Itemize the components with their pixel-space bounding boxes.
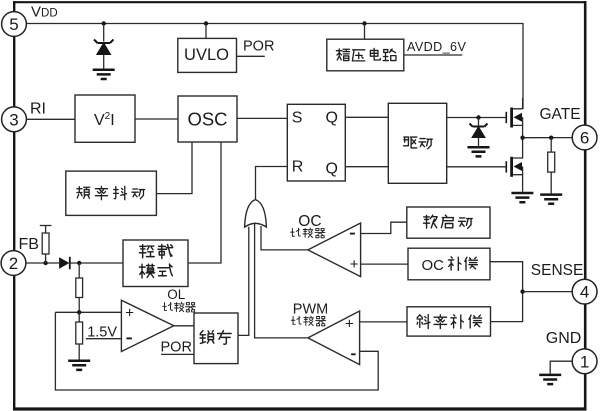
node zener D2 junction <box>476 115 480 119</box>
block slope compensation 斜率补偿 <box>407 307 491 336</box>
svg-text:GATE: GATE <box>540 106 581 123</box>
block latch 锁存 <box>194 313 238 364</box>
wire OL output to latch <box>174 325 194 327</box>
wire pin3 to V2I <box>26 118 75 120</box>
svg-text:Q: Q <box>326 110 338 127</box>
svg-text:SENSE: SENSE <box>531 262 584 279</box>
frame border top <box>13 1 587 3</box>
node FB divider junction <box>77 261 81 265</box>
wire V2I to OSC <box>135 118 178 120</box>
svg-text:RI: RI <box>30 101 46 118</box>
node FB pullup junction <box>43 261 47 265</box>
svg-text:5: 5 <box>9 15 18 34</box>
label OL comparator 比较器 <box>163 302 196 312</box>
block light-load 轻载模式 <box>123 240 188 287</box>
ground under Q2 <box>511 193 533 202</box>
svg-text:FB: FB <box>19 236 39 253</box>
block jitter 频率抖动 <box>66 171 157 215</box>
resistor R1 gate pulldown <box>548 152 555 172</box>
op-amp OC comparator <box>308 223 361 277</box>
wire VDD top rail <box>27 24 523 110</box>
wire driver top output to gate <box>447 117 506 119</box>
wire divider lower lead <box>78 312 80 322</box>
svg-text:GND: GND <box>546 330 582 347</box>
svg-text:+: + <box>350 256 359 273</box>
resistor R3 divider upper <box>76 278 83 298</box>
svg-text:3: 3 <box>9 110 18 129</box>
wire slope comp to sense node <box>491 292 523 322</box>
svg-text:OC: OC <box>422 257 445 274</box>
ground under R1 <box>540 195 562 204</box>
svg-text:2: 2 <box>9 254 18 273</box>
wire zener D1 top lead <box>103 24 105 42</box>
pin 4 circle <box>572 279 597 304</box>
diode D3 <box>59 257 70 269</box>
node divider to OL junction <box>77 310 81 314</box>
wire pin 1 to ground <box>550 361 572 374</box>
wire POR to latch <box>161 353 194 355</box>
wire OSC to jitter block <box>156 142 192 194</box>
wire latch output to OR gate <box>238 227 249 336</box>
svg-text:1.5V: 1.5V <box>87 325 117 341</box>
resistor R4 divider lower <box>76 322 83 344</box>
block driver 驱动 <box>388 103 446 183</box>
wire OSC to S input <box>237 117 287 119</box>
svg-text:OSC: OSC <box>187 109 227 130</box>
op-amp OL comparator <box>121 300 173 351</box>
svg-text:V2I: V2I <box>94 111 115 129</box>
node sense junction <box>520 289 524 293</box>
ground under D2 <box>468 147 490 156</box>
svg-text:AVDD_6V: AVDD_6V <box>407 40 466 54</box>
svg-text:S: S <box>292 110 303 127</box>
ground under D1 <box>93 70 115 79</box>
svg-text:+: + <box>125 305 134 322</box>
wire OC output to or-gate <box>261 226 308 250</box>
frame border right <box>584 1 587 409</box>
block V2I <box>75 95 135 142</box>
wire POR output <box>237 55 265 57</box>
svg-text:+: + <box>345 316 354 333</box>
wire or-gate output to R input <box>256 167 288 201</box>
resistor R2 FB pullup with top bar <box>40 226 52 264</box>
wire AVDD_6V output <box>404 54 463 56</box>
ground under R4 <box>68 361 90 370</box>
pin 2 circle <box>1 251 26 276</box>
frame border bottom <box>13 407 587 410</box>
block soft-start 软启动 <box>407 207 490 238</box>
wire R4 to ground <box>78 344 80 360</box>
svg-text:R: R <box>292 158 304 175</box>
node VDD-regulator junction <box>362 21 366 25</box>
wire 1.5V reference stub <box>86 338 122 340</box>
svg-text:Q: Q <box>326 160 338 177</box>
wire sense node to pin 4 <box>523 291 573 293</box>
wire OC comp to sense node <box>490 262 523 292</box>
node VDD-zener junction <box>102 21 106 25</box>
label PWM comparator 比较器 <box>291 316 325 326</box>
wire OL plus input <box>55 311 121 313</box>
label OC comparator 比较器 <box>291 228 325 238</box>
wire zener D1 bottom lead <box>103 55 105 69</box>
pin 1 circle <box>572 349 597 374</box>
block SR latch U1 <box>287 104 345 181</box>
ground at pin 1 <box>539 375 561 384</box>
transistor Q1 upper MOSFET <box>506 98 522 138</box>
wire zener D2 top lead <box>478 118 480 126</box>
wire Q to driver <box>345 116 388 118</box>
wire R1 to ground <box>550 172 552 193</box>
frame border left <box>13 1 15 409</box>
svg-text:PWM: PWM <box>293 301 328 317</box>
zener diode D1 <box>94 40 114 55</box>
pin 5 circle <box>2 12 27 37</box>
wire driver bottom output to gate <box>447 166 506 168</box>
svg-text:POR: POR <box>161 339 192 355</box>
wire R3 to node <box>78 298 80 313</box>
wire OSC to light-load output <box>188 142 221 263</box>
node gate output junction <box>520 136 524 140</box>
block regulator 稳压电路 <box>327 24 404 71</box>
wire soft-start to OC minus input <box>361 222 407 233</box>
wire Qb to driver <box>345 166 388 168</box>
wire PWM output to or-gate <box>255 223 308 338</box>
wire to gate resistor <box>550 138 552 152</box>
block UVLO <box>178 24 237 73</box>
node gate resistor junction <box>549 136 553 140</box>
wire divider upper lead <box>78 263 80 278</box>
wire slope comp to PWM plus input <box>360 321 407 323</box>
svg-text:UVLO: UVLO <box>184 46 229 64</box>
wire FB input <box>26 262 59 264</box>
block OC compensation OC补偿 <box>408 248 490 280</box>
zener diode D2 <box>470 124 488 138</box>
svg-text:4: 4 <box>580 283 589 302</box>
svg-text:OL: OL <box>167 287 186 302</box>
svg-text:6: 6 <box>580 129 589 148</box>
wire diode to light-load block <box>70 262 123 264</box>
svg-text:POR: POR <box>243 38 274 54</box>
or-gate U2 <box>245 200 267 228</box>
op-amp PWM comparator <box>308 311 360 365</box>
svg-text:OC: OC <box>298 213 321 230</box>
wire zener D2 bottom lead <box>478 138 480 147</box>
pin 3 circle <box>2 107 27 132</box>
wire gate node to pin 6 <box>523 137 573 139</box>
pin 6 circle <box>572 125 597 150</box>
transistor Q2 lower MOSFET <box>506 138 522 192</box>
wire OC-comp block to OC plus input <box>361 263 408 265</box>
svg-text:1: 1 <box>580 352 589 371</box>
block OSC <box>178 96 237 142</box>
node VDD-UVLO junction <box>204 21 208 25</box>
wire feedback loop to PWM minus input <box>55 312 378 390</box>
